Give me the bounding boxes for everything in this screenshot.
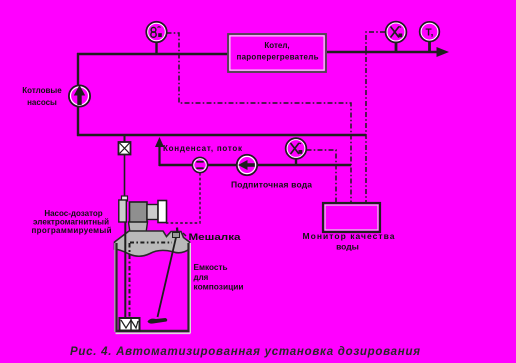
dosing discharge line xyxy=(124,155,126,201)
signal wire: flow meter to dosing pump xyxy=(166,173,200,223)
side cover xyxy=(158,201,167,223)
sensor A1 (conductivity on feed header) xyxy=(146,22,166,42)
svg-text:композиции: композиции xyxy=(194,283,244,292)
svg-text:насосы: насосы xyxy=(27,98,57,107)
dosing pump assembly xyxy=(119,196,167,233)
svg-text:Рис. 4. Автоматизированная уст: Рис. 4. Автоматизированная установка доз… xyxy=(70,346,420,358)
tank walls xyxy=(115,243,191,333)
sensor A2 (conductivity on steam line) xyxy=(386,22,407,43)
wire: left riser (boiler feed) xyxy=(77,53,79,136)
wire: make-up water line xyxy=(159,164,351,166)
stirrer paddle xyxy=(148,318,168,324)
foot valve xyxy=(120,318,140,331)
svg-text:Котел,: Котел, xyxy=(264,41,289,50)
pump head xyxy=(122,196,128,201)
wire: make-up riser into condensate xyxy=(158,143,160,166)
arrowhead make-up riser xyxy=(155,137,164,147)
arrowhead steam line xyxy=(437,47,450,57)
stem sensor A1 xyxy=(155,42,157,54)
sensor T1 (temperature on steam line) xyxy=(420,22,440,42)
svg-text:Котловые: Котловые xyxy=(22,86,62,95)
signal wire: sensor A1 to monitor xyxy=(167,33,352,203)
svg-text:Емкость: Емкость xyxy=(194,263,228,272)
pedestal xyxy=(129,222,148,233)
stem sensor T1 xyxy=(428,41,431,52)
control housing xyxy=(147,205,158,220)
wire: condensate header xyxy=(77,134,366,136)
suction lance (dashed) xyxy=(129,243,131,317)
monitor box xyxy=(323,203,380,232)
stem sensor A3 xyxy=(295,158,297,165)
stem sensor A2 xyxy=(395,42,398,52)
svg-text:для: для xyxy=(194,273,209,282)
svg-text:программируемый: программируемый xyxy=(32,226,112,235)
svg-text:Конденсат, поток: Конденсат, поток xyxy=(163,144,243,153)
svg-text:Т,: Т, xyxy=(426,28,434,39)
lid fitting xyxy=(173,228,187,238)
flow meter FQ (water meter on make-up line) xyxy=(192,157,207,172)
svg-text:Подпиточная вода: Подпиточная вода xyxy=(231,180,312,190)
tank shoulder (lid) xyxy=(115,231,190,256)
boiler box xyxy=(228,34,326,72)
injection valve into condensate header xyxy=(119,136,131,155)
svg-text:воды: воды xyxy=(336,242,359,252)
flow direction indicator (circle with left arrow) xyxy=(237,155,257,175)
sensor A3 (conductivity on make-up line) xyxy=(286,138,307,159)
solenoid body xyxy=(130,202,148,223)
level mark inside shoulder xyxy=(130,242,172,244)
suction tube xyxy=(124,222,126,318)
signal wire: sensor A3 to monitor xyxy=(307,150,337,203)
stirrer rod xyxy=(158,231,178,317)
svg-text:пароперегреватель: пароперегреватель xyxy=(237,53,319,62)
pump P1 (boiler pumps, circle with up arrow) xyxy=(69,85,90,107)
svg-text:Монитор качества: Монитор качества xyxy=(303,231,395,241)
svg-text:Мешалка: Мешалка xyxy=(189,232,242,242)
signal wire: sensor A2 to monitor xyxy=(366,32,385,203)
wire: feedwater top header xyxy=(77,53,228,55)
wire: steam outlet line xyxy=(327,51,441,53)
